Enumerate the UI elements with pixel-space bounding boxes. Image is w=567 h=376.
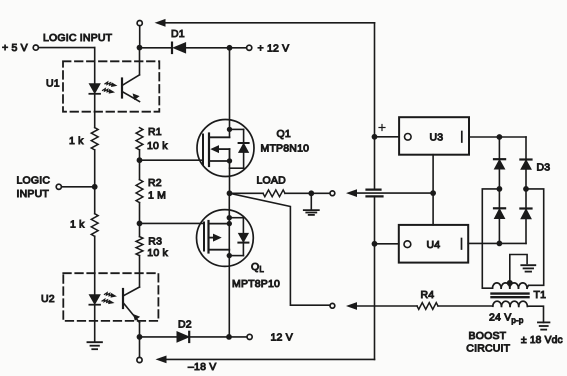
junction dot U2 emitter node bbox=[137, 334, 143, 340]
junction dot QL source node bbox=[226, 334, 232, 340]
wire bridge mid-right to T1 primary bbox=[526, 189, 544, 288]
transistor Q1 circle bbox=[197, 120, 254, 177]
capacitor C1 bbox=[367, 190, 383, 197]
transformer T1 secondary winding bbox=[493, 301, 528, 306]
wire cap node with arrow bbox=[348, 190, 434, 196]
label 24 Vp-p bbox=[489, 312, 524, 326]
svg-text:U3: U3 bbox=[430, 132, 444, 144]
label D2 bbox=[178, 318, 192, 330]
U2 phototransistor bbox=[123, 287, 140, 323]
label QL bbox=[232, 261, 280, 290]
svg-text:D1: D1 bbox=[171, 28, 185, 40]
wire -18V rail with arrow bbox=[157, 356, 375, 362]
Q1 body diode bbox=[227, 127, 249, 169]
U1 LED bbox=[89, 84, 100, 128]
junction dot bridge bottom bbox=[497, 241, 503, 247]
label U1 bbox=[46, 77, 60, 89]
wire U3 to U4 bbox=[432, 155, 434, 225]
U3 pin I bbox=[461, 132, 463, 143]
diode D3c bbox=[494, 189, 505, 244]
converter U4 box bbox=[399, 225, 468, 263]
wire R2 to R3 bbox=[139, 203, 141, 237]
svg-text:R1: R1 bbox=[148, 126, 162, 138]
svg-text:U1: U1 bbox=[46, 77, 60, 89]
wire U4 output bbox=[468, 242, 526, 244]
capacitor C1 plus bbox=[379, 125, 385, 131]
label -18V bbox=[188, 361, 216, 373]
Q1 gate bar bbox=[202, 135, 204, 165]
QL drain stub bbox=[209, 221, 233, 226]
node LOAD output terminal bbox=[330, 191, 335, 196]
junction dot U3 input bbox=[372, 134, 378, 140]
wire main right vertical (top) bbox=[374, 23, 376, 190]
converter U3 box bbox=[399, 117, 469, 155]
junction dot bridge top left bbox=[497, 134, 503, 140]
svg-text:1 k: 1 k bbox=[70, 219, 85, 231]
QL channel bar bbox=[207, 221, 209, 253]
svg-text:24 Vp-p: 24 Vp-p bbox=[489, 312, 524, 326]
QL body stub with arrow bbox=[209, 234, 221, 240]
wire to U4 input bbox=[375, 243, 399, 245]
Q1 body stub with arrow bbox=[212, 146, 230, 152]
svg-text:MTP8N10: MTP8N10 bbox=[261, 142, 310, 154]
label U3 bbox=[430, 132, 444, 144]
svg-text:T1: T1 bbox=[534, 289, 547, 301]
Q1 source wire to LOAD node bbox=[229, 161, 231, 193]
svg-text:Q1: Q1 bbox=[277, 128, 291, 140]
wire R4 with arrow bbox=[348, 303, 418, 309]
svg-text:D2: D2 bbox=[178, 318, 192, 330]
svg-text:LOAD: LOAD bbox=[257, 175, 287, 187]
U1 collector wire to top node bbox=[139, 48, 141, 75]
label D3 bbox=[537, 161, 551, 173]
label U4 bbox=[427, 239, 441, 251]
svg-text:–18 V: –18 V bbox=[188, 361, 216, 373]
junction dot LOAD node bbox=[227, 190, 233, 196]
label R4 bbox=[421, 289, 435, 301]
resistor 1k (upper) bbox=[69, 128, 98, 150]
node -18V terminal circle bbox=[137, 357, 142, 362]
top terminal circle bbox=[137, 21, 142, 48]
label BOOST CIRCUIT bbox=[466, 330, 510, 354]
ground below U2 LED bbox=[87, 305, 102, 350]
diode D3a bbox=[494, 137, 505, 189]
wire R3 to U2 collector bbox=[139, 256, 141, 287]
Q1 source stub bbox=[209, 149, 230, 161]
wire 1k to U2 LED bbox=[94, 236, 96, 294]
diode D3d bbox=[520, 189, 531, 244]
wire T1 secondary left bbox=[0, 0, 1, 1]
U3 pin O bbox=[405, 134, 412, 141]
resistor LOAD bbox=[230, 190, 312, 197]
U2 emitter wire bbox=[139, 323, 141, 337]
node boost feed terminal bbox=[330, 303, 335, 308]
label 18 Vdc bbox=[521, 335, 563, 346]
wire Q1 gate bbox=[140, 159, 204, 161]
U2 LED bbox=[89, 295, 100, 305]
wire R1 to R2 bbox=[139, 150, 141, 180]
svg-text:R2: R2 bbox=[148, 177, 162, 189]
resistor R1 10k bbox=[136, 126, 168, 152]
QL body diode bbox=[227, 215, 249, 258]
wire +5V to U1 LED anode bbox=[38, 48, 94, 84]
svg-text:INPUT: INPUT bbox=[17, 188, 50, 200]
resistor 1k (lower) bbox=[70, 214, 98, 237]
diode D2 bbox=[140, 332, 230, 342]
resistor R3 10k bbox=[136, 237, 143, 256]
svg-text:12 V: 12 V bbox=[271, 332, 293, 344]
optocoupler U2 dashed box bbox=[63, 273, 158, 321]
U4 pin I bbox=[461, 239, 463, 250]
U2 photon arrows bbox=[102, 293, 116, 304]
svg-text:U2: U2 bbox=[41, 293, 55, 305]
svg-text:+ 5 V: + 5 V bbox=[2, 42, 28, 54]
svg-text:BOOST: BOOST bbox=[469, 330, 507, 342]
svg-text:10 k: 10 k bbox=[147, 140, 168, 152]
svg-text:± 18 Vdc: ± 18 Vdc bbox=[521, 335, 563, 346]
transformer T1 primary winding bbox=[493, 283, 528, 288]
junction dot R1-R2 / Q1 gate node bbox=[137, 157, 143, 163]
junction dot +12V node bbox=[227, 45, 233, 51]
junction dot U1 collector node bbox=[137, 45, 143, 51]
svg-text:CIRCUIT: CIRCUIT bbox=[466, 342, 510, 354]
wire LOAD to terminal bbox=[311, 192, 330, 194]
QL main vertical bbox=[228, 193, 230, 337]
wire main right vertical (bottom) bbox=[374, 196, 376, 359]
svg-text:1 k: 1 k bbox=[69, 135, 84, 147]
ground bottom right bbox=[538, 322, 550, 329]
ground at T1 center tap bbox=[521, 265, 535, 271]
svg-text:LOGIC: LOGIC bbox=[17, 175, 51, 187]
diode D1 bbox=[142, 43, 230, 53]
label U2 bbox=[41, 293, 55, 305]
label Q1 bbox=[261, 128, 310, 154]
label D1 bbox=[171, 28, 185, 40]
labels R3 10k bbox=[147, 235, 168, 259]
optocoupler U1 dashed box bbox=[63, 61, 159, 111]
wire top rail with arrow bbox=[156, 20, 375, 26]
transistor QL circle bbox=[197, 210, 254, 267]
svg-text:U4: U4 bbox=[427, 239, 441, 251]
svg-text:QL: QL bbox=[251, 261, 264, 274]
svg-text:+ 12 V: + 12 V bbox=[258, 43, 290, 55]
ground below LOAD bbox=[304, 193, 319, 215]
junction dot bridge mid right bbox=[523, 186, 529, 192]
svg-text:10 k: 10 k bbox=[147, 247, 168, 259]
T1 center tap bbox=[507, 255, 527, 287]
diode D3b bbox=[520, 137, 531, 189]
junction dot U3-U4 link bbox=[430, 190, 436, 196]
wire U3 output bbox=[469, 136, 526, 138]
U4 pin O bbox=[404, 241, 411, 248]
T1 core bbox=[492, 294, 529, 298]
junction dot R2-R3 / QL gate node bbox=[137, 221, 143, 227]
svg-text:LOGIC INPUT: LOGIC INPUT bbox=[43, 32, 113, 44]
QL gate bar bbox=[203, 223, 205, 251]
label T1 bbox=[534, 289, 547, 301]
Q1 channel bar bbox=[208, 134, 210, 167]
wire to U3 input bbox=[375, 136, 400, 138]
U1 phototransistor bbox=[122, 75, 140, 102]
wire 1k to LOGIC INPUT node bbox=[94, 150, 96, 214]
wire bridge mid-left to T1 primary bbox=[482, 189, 499, 288]
resistor R4 bbox=[417, 303, 493, 310]
Q1 drain stub bbox=[209, 48, 230, 138]
junction dot U4 input bbox=[372, 241, 378, 247]
svg-text:1 M: 1 M bbox=[148, 190, 166, 202]
label LOGIC INPUT (top) bbox=[43, 32, 113, 44]
junction dot LOAD output bbox=[308, 190, 314, 196]
label LOAD bbox=[257, 175, 287, 187]
svg-text:R3: R3 bbox=[148, 235, 162, 247]
node 12V terminal bbox=[229, 332, 293, 344]
junction dot bridge mid left bbox=[497, 186, 503, 192]
junction dot LOGIC INPUT bbox=[92, 184, 98, 190]
node +12V terminal bbox=[230, 43, 290, 55]
svg-text:D3: D3 bbox=[537, 161, 551, 173]
svg-text:MPT8P10: MPT8P10 bbox=[232, 278, 280, 290]
wire to -18V terminal bbox=[139, 337, 141, 358]
wire T1 secondary right to ground bbox=[527, 306, 543, 322]
wire bootstrap diagonal bbox=[230, 193, 331, 305]
QL source stub bbox=[209, 249, 230, 251]
node LOGIC INPUT terminal bbox=[17, 175, 95, 200]
svg-text:R4: R4 bbox=[421, 289, 435, 301]
node +5V terminal bbox=[2, 42, 38, 54]
U1 photon arrows bbox=[103, 82, 117, 93]
wire QL gate bbox=[140, 222, 205, 224]
resistor R2 1M bbox=[136, 177, 166, 203]
